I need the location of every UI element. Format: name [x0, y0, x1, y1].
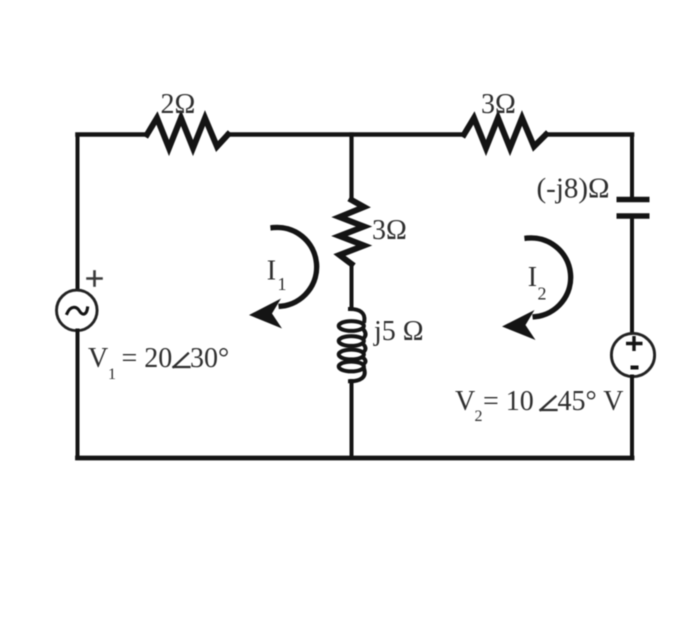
wire middle lower [350, 381, 354, 458]
source V2 plus polarity [626, 336, 643, 351]
wire right middle [630, 216, 634, 334]
svg-text:= 20: = 20 [122, 343, 173, 374]
inductor L1 j5ohm coil [339, 309, 366, 381]
wire bottom [78, 456, 633, 461]
wire top-right segment [546, 132, 632, 137]
svg-text:45° V: 45° V [558, 386, 624, 417]
svg-text:3Ω: 3Ω [372, 215, 407, 246]
wire top-left segment [78, 132, 148, 137]
svg-text:j5 Ω: j5 Ω [373, 316, 424, 347]
source V1 circle [57, 290, 98, 331]
svg-text:V: V [88, 343, 108, 374]
wire left upper [76, 135, 80, 291]
svg-text:1: 1 [108, 366, 116, 383]
wire left lower [76, 331, 80, 459]
svg-text:I: I [267, 256, 276, 287]
mesh current I2 arrowhead [502, 310, 536, 340]
svg-text:I: I [528, 262, 537, 293]
source V2 circle [611, 333, 654, 376]
source V1 sine tilde [67, 307, 88, 314]
svg-text:2: 2 [475, 408, 483, 425]
angle symbol for V2 [541, 397, 557, 411]
mesh current I2 arc [527, 238, 571, 317]
svg-text:2Ω: 2Ω [161, 89, 196, 120]
mesh current I1 arc [273, 227, 317, 306]
wire top-middle segment [228, 132, 464, 137]
resistor R3 3ohm zigzag vertical [340, 200, 365, 264]
resistor R1 2ohm zigzag [147, 118, 228, 148]
wire right upper [630, 135, 634, 198]
wire middle upper [349, 135, 353, 201]
wire middle between R3 and L1 [350, 264, 354, 309]
svg-text:1: 1 [278, 274, 287, 294]
svg-text:= 10: = 10 [483, 386, 534, 417]
source V1 plus polarity [88, 272, 102, 286]
svg-text:2: 2 [538, 284, 547, 304]
svg-text:3Ω: 3Ω [481, 89, 516, 120]
wire right lower [630, 377, 634, 459]
resistor R2 3ohm zigzag top [464, 118, 546, 148]
source V2 minus polarity [631, 366, 639, 370]
svg-text:30°: 30° [190, 343, 229, 374]
capacitor C1 plates [617, 200, 650, 217]
angle symbol for V1 [174, 354, 190, 368]
mesh current I1 arrowhead [249, 299, 282, 329]
svg-text:(-j8)Ω: (-j8)Ω [537, 173, 610, 205]
svg-text:V: V [455, 386, 475, 417]
